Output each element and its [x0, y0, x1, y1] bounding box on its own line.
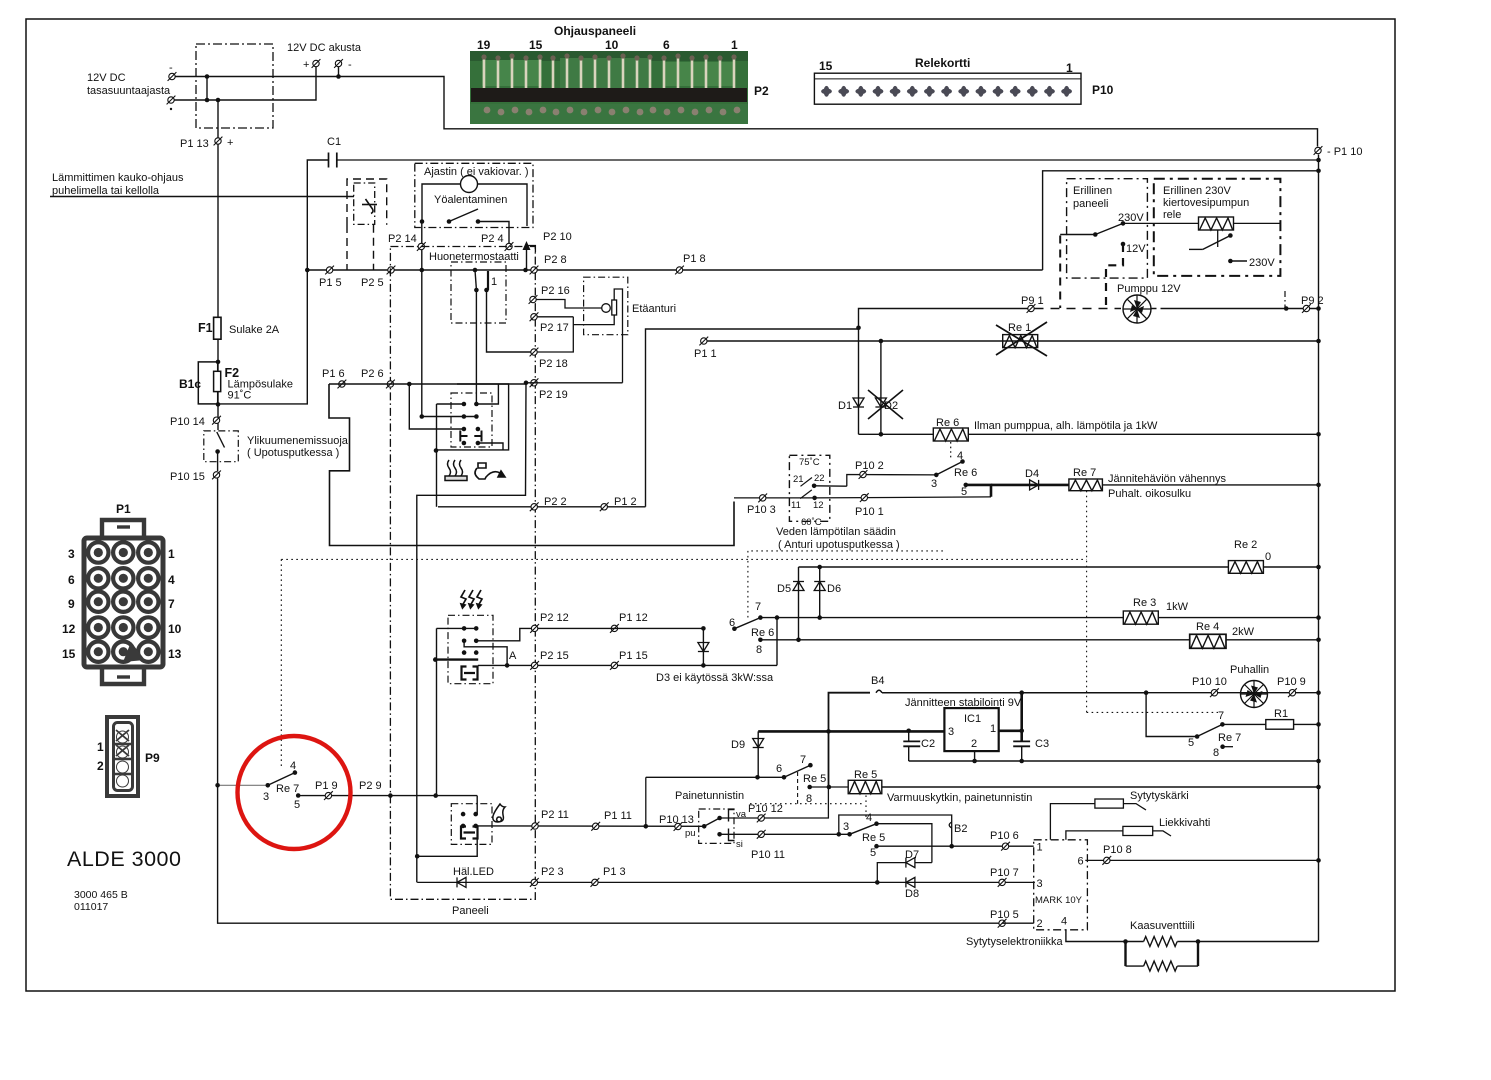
- Re 4 coil: [1190, 634, 1226, 648]
- svg-text:P2 6: P2 6: [361, 368, 384, 380]
- junction dot box top right: [1316, 169, 1321, 174]
- svg-text:C1: C1: [327, 136, 341, 148]
- junction dot C3 bottom: [1019, 759, 1024, 764]
- svg-text:tasasuuntaajasta: tasasuuntaajasta: [87, 85, 171, 97]
- P1 12 terminal: [610, 624, 619, 633]
- junction dot P1 1 right: [1316, 339, 1321, 344]
- upper enclosure box top: [1043, 171, 1319, 270]
- svg-text:P1 3: P1 3: [603, 866, 626, 878]
- svg-text:Yöalentaminen: Yöalentaminen: [434, 194, 507, 206]
- wire si row: [720, 833, 850, 835]
- svg-text:Re 7: Re 7: [1073, 467, 1096, 479]
- svg-text:2kW: 2kW: [1232, 626, 1255, 638]
- Re 7 coil: [1069, 479, 1103, 491]
- thick wire IC1 out: [999, 729, 1022, 732]
- svg-text:Re 5: Re 5: [803, 773, 826, 785]
- remote control outer dashed box: [347, 179, 387, 225]
- svg-text:12V DC akusta: 12V DC akusta: [287, 42, 362, 54]
- junction dot fan branch: [1144, 690, 1149, 695]
- P2 12 terminal: [530, 624, 539, 633]
- svg-text:D7: D7: [905, 849, 919, 861]
- svg-text:D4: D4: [1025, 468, 1039, 480]
- C3 capacitor: [1013, 741, 1030, 746]
- flame guard tick: [1153, 831, 1171, 836]
- P2 8 terminal: [530, 266, 539, 275]
- P2 15 terminal: [530, 661, 539, 670]
- junction dot D2 bottom: [879, 432, 884, 437]
- junction dot pin2: [972, 759, 977, 764]
- steam icon: [445, 460, 467, 481]
- svg-text:Re 3: Re 3: [1133, 597, 1156, 609]
- svg-text:Sytytyselektroniikka: Sytytyselektroniikka: [966, 936, 1063, 948]
- wire minus drop: [338, 67, 340, 77]
- svg-text:Erillinen 230V: Erillinen 230V: [1163, 185, 1232, 197]
- wire row3: [409, 384, 464, 429]
- P10 12 terminal: [757, 814, 766, 823]
- rele contact link: [1217, 230, 1219, 247]
- svg-text:R1: R1: [1274, 708, 1288, 720]
- svg-text:Huonetermostaatti: Huonetermostaatti: [429, 251, 519, 263]
- svg-text:7: 7: [800, 754, 806, 766]
- P2 10 arrow terminal: [523, 241, 536, 270]
- svg-text:MARK 10Y: MARK 10Y: [1035, 895, 1083, 906]
- svg-text:C2: C2: [921, 738, 935, 750]
- wire D7 left: [877, 863, 906, 883]
- junction dot B4 drop: [826, 729, 831, 734]
- svg-text:Sulake 2A: Sulake 2A: [229, 324, 280, 336]
- wire P2 19: [526, 382, 623, 384]
- P1 13 terminal: [214, 137, 223, 146]
- wire P10 1 row: [815, 497, 991, 498]
- svg-text:P1 2: P1 2: [614, 496, 637, 508]
- wire P2 17: [538, 316, 574, 318]
- va bracket: [729, 810, 735, 822]
- sensor bar bottom leg: [573, 315, 614, 325]
- svg-text:Re 5: Re 5: [854, 769, 877, 781]
- svg-text:Re 6: Re 6: [751, 627, 774, 639]
- rectifier terminal lower: [167, 96, 176, 105]
- junction dot D9 bottom: [755, 775, 760, 780]
- LED diode: [457, 877, 466, 887]
- P10 2 terminal: [859, 470, 868, 479]
- junction dot left main: [215, 783, 220, 788]
- sensor circle: [602, 304, 611, 313]
- svg-text:Veden lämpötilan säädin: Veden lämpötilan säädin: [776, 526, 896, 538]
- spark electrode wire: [1050, 804, 1095, 840]
- svg-text:P2 17: P2 17: [540, 322, 569, 334]
- wire PCB to P1 10: [470, 129, 1318, 147]
- wire P2 14 leg lower: [421, 270, 423, 417]
- dotted link Re6: [950, 442, 952, 459]
- svg-text:011017: 011017: [74, 901, 108, 913]
- Re 6 selector switch: [729, 601, 774, 656]
- junction dot D7: [875, 880, 880, 885]
- wire contact bottom: [478, 443, 503, 450]
- Re 1 coil crossed: [996, 322, 1047, 356]
- sensor hook to P2 19: [614, 289, 622, 383]
- svg-text:3000 465 B: 3000 465 B: [74, 889, 128, 901]
- D2 diode crossed: [868, 390, 903, 419]
- svg-text:Kaasuventtiili: Kaasuventtiili: [1130, 920, 1195, 932]
- svg-text:P2 10: P2 10: [543, 231, 572, 243]
- lower contact: [800, 490, 817, 500]
- junction dot bypass: [775, 615, 780, 620]
- junction dot C1 right: [1316, 158, 1321, 163]
- junction dot IC1 out: [1019, 729, 1024, 734]
- pressure sensor dash-dot box: [699, 809, 734, 843]
- P1 15 terminal: [610, 661, 619, 670]
- svg-text:Re 6: Re 6: [936, 417, 959, 429]
- water thermostat dash-dot box: [789, 455, 829, 521]
- svg-text:1: 1: [1066, 61, 1073, 75]
- svg-text:7: 7: [168, 597, 175, 611]
- panel dashed drop 12V: [1106, 244, 1123, 308]
- D5 diode: [793, 582, 804, 591]
- D3 diode: [698, 643, 709, 652]
- svg-text:D1: D1: [838, 400, 852, 412]
- cup icon: [475, 463, 505, 479]
- junction dot Re6 right: [1316, 432, 1321, 437]
- svg-text:Pumppu 12V: Pumppu 12V: [1117, 283, 1181, 295]
- Re 5 contact switch: [843, 812, 885, 859]
- svg-text:P2 4: P2 4: [481, 233, 504, 245]
- remote switch cross: [362, 199, 377, 214]
- svg-text:Liekkivahti: Liekkivahti: [1159, 817, 1210, 829]
- wire Re5 switch row: [646, 776, 784, 778]
- junction dot D6 top: [817, 565, 822, 570]
- wire P1 11 riser: [645, 777, 647, 826]
- P10 10 terminal: [1210, 688, 1219, 697]
- D9 branch: [757, 731, 759, 777]
- B4 curl: [876, 690, 882, 693]
- svg-text:P2 11: P2 11: [541, 809, 569, 821]
- flame block dots: [461, 812, 466, 817]
- dotted linkage Re5 row: [750, 803, 862, 805]
- wire P2 11 long: [476, 825, 705, 827]
- battery dash-dot box: [196, 44, 273, 128]
- Re 7 output switch: [1188, 710, 1241, 759]
- svg-text:D6: D6: [827, 583, 841, 595]
- svg-text:B1c: B1c: [179, 377, 201, 391]
- svg-text:ALDE 3000: ALDE 3000: [67, 847, 181, 871]
- P9 connector drawing: [107, 717, 138, 796]
- svg-text:12V: 12V: [1126, 243, 1146, 255]
- svg-text:( Upotusputkessa ): ( Upotusputkessa ): [247, 447, 339, 459]
- wire D3 bypass: [776, 618, 778, 666]
- svg-text:+: +: [303, 59, 309, 71]
- B4 wire: [829, 693, 871, 787]
- P1 9 terminal: [324, 791, 333, 800]
- svg-text:P10 3: P10 3: [747, 504, 776, 516]
- thermostat leg right: [487, 290, 535, 352]
- lower block row2 link: [464, 641, 507, 666]
- junction dot B4 C3: [1019, 690, 1024, 695]
- wire Re7 to right: [1102, 484, 1318, 486]
- svg-text:P1 8: P1 8: [683, 253, 706, 265]
- junction dot main right P9: [1316, 306, 1321, 311]
- remote dashed drop left: [346, 225, 348, 270]
- wire to P10 14: [217, 392, 219, 430]
- junction dot F2 top: [216, 360, 221, 365]
- svg-text:5: 5: [1188, 737, 1194, 749]
- lower block row2 dots: [462, 639, 467, 644]
- heat element strokes icon: [461, 590, 482, 608]
- svg-text:P1 11: P1 11: [604, 810, 632, 822]
- junction dot 1kW right: [1316, 615, 1321, 620]
- wire P2 9 row: [302, 795, 478, 797]
- svg-text:P1 5: P1 5: [319, 277, 342, 289]
- svg-text:10: 10: [168, 622, 182, 636]
- P2 4 terminal: [505, 242, 514, 251]
- Etaanturi box: [584, 277, 628, 335]
- svg-text:3: 3: [843, 821, 849, 833]
- main left wire down: [218, 479, 1002, 924]
- D8 diode: [906, 877, 915, 887]
- lower heater dash-dot box: [448, 615, 493, 683]
- C2 legs: [908, 731, 910, 761]
- svg-text:15: 15: [62, 647, 76, 661]
- dotted linkage top: [281, 558, 1086, 560]
- flame block H contact: [461, 827, 478, 839]
- svg-text:8: 8: [756, 644, 762, 656]
- P10 8 terminal: [1102, 856, 1111, 865]
- Re 5 upper switch: [776, 754, 826, 805]
- P10 1 terminal: [860, 493, 869, 502]
- svg-text:-: -: [169, 62, 173, 74]
- wire D3 column: [702, 628, 704, 665]
- svg-text:D5: D5: [777, 583, 791, 595]
- svg-text:Re 6: Re 6: [954, 467, 977, 479]
- P2 5 terminal: [387, 266, 396, 275]
- svg-text:B2: B2: [954, 823, 967, 835]
- svg-text:P9: P9: [145, 751, 160, 765]
- lower block row1 dots: [462, 626, 467, 631]
- dashed linkage Re5 switch: [797, 772, 799, 804]
- svg-text:P2 2: P2 2: [544, 496, 567, 508]
- svg-text:P2: P2: [754, 84, 769, 98]
- svg-text:Puhalt. oikosulku: Puhalt. oikosulku: [1108, 488, 1191, 500]
- flame guard wire: [1066, 831, 1123, 840]
- ground rail: [909, 760, 1319, 762]
- D7 diode: [906, 858, 915, 868]
- flame sensor block dash-dot box: [451, 804, 492, 845]
- Re 5 coil: [848, 780, 882, 793]
- P10 3 terminal: [758, 494, 767, 503]
- svg-text:11: 11: [791, 500, 801, 511]
- wire P2 15 long: [478, 664, 777, 666]
- lower H contact: [462, 667, 478, 680]
- svg-text:19: 19: [477, 38, 491, 52]
- wire Re 2 row: [799, 566, 1319, 568]
- svg-text:9: 9: [68, 597, 75, 611]
- svg-text:P9 2: P9 2: [1301, 295, 1324, 307]
- svg-text:P10 14: P10 14: [170, 416, 205, 428]
- P9 2 dash-dot mark: [1284, 291, 1286, 308]
- wire P1 1 long: [707, 340, 1319, 342]
- junction dot P2 14 leg: [420, 268, 425, 273]
- svg-text:Re 7: Re 7: [1218, 732, 1241, 744]
- akusta plus terminal: [312, 59, 321, 68]
- B1c bypass box: [198, 362, 217, 404]
- svg-text:5: 5: [961, 486, 967, 498]
- svg-text:Painetunnistin: Painetunnistin: [675, 790, 744, 802]
- svg-text:P10 9: P10 9: [1277, 676, 1306, 688]
- svg-text:P10 8: P10 8: [1103, 844, 1132, 856]
- svg-text:+: +: [227, 137, 233, 149]
- svg-text:21: 21: [793, 474, 804, 485]
- wire 5 contact B2 row: [877, 845, 1034, 847]
- P2 2 terminal: [530, 502, 539, 511]
- P1 5 terminal: [325, 266, 334, 275]
- svg-text:12: 12: [62, 622, 76, 636]
- svg-text:1kW: 1kW: [1166, 601, 1189, 613]
- svg-text:7: 7: [1218, 710, 1224, 722]
- svg-text:P10 7: P10 7: [990, 867, 1019, 879]
- D9 diode: [753, 739, 764, 748]
- wire into flame block: [476, 796, 478, 815]
- wire 4 contact to D7: [877, 824, 932, 863]
- svg-text:Ohjauspaneeli: Ohjauspaneeli: [554, 24, 636, 38]
- wire P2 16 to sensor: [537, 300, 602, 309]
- relay U contact left: [460, 427, 467, 446]
- relay U contact right: [474, 427, 481, 446]
- fan motor: [1241, 681, 1268, 708]
- wire Re 6 row: [859, 433, 1319, 435]
- junction dot D2 top: [879, 339, 884, 344]
- svg-text:1: 1: [990, 723, 996, 735]
- svg-text:Re 2: Re 2: [1234, 539, 1257, 551]
- dotted linkage Re5 coil: [865, 795, 867, 817]
- svg-text:Lämmittimen kauko-ohjaus: Lämmittimen kauko-ohjaus: [52, 172, 184, 184]
- D1 diode: [853, 398, 864, 407]
- Re 6 power switch: [931, 450, 977, 498]
- svg-text:15: 15: [819, 59, 833, 73]
- wire lower supply: [174, 67, 316, 100]
- svg-text:Re 1: Re 1: [1008, 322, 1031, 334]
- svg-text:5: 5: [294, 799, 300, 811]
- relay contact dots row2: [462, 414, 467, 419]
- svg-text:4: 4: [168, 573, 175, 587]
- svg-text:5: 5: [870, 847, 876, 859]
- si bracket: [729, 829, 735, 841]
- svg-text:6: 6: [776, 763, 782, 775]
- svg-text:P10 12: P10 12: [748, 803, 783, 815]
- P10 15 terminal: [212, 471, 221, 480]
- junction dot si loop: [837, 832, 842, 837]
- wire to P1 13: [217, 100, 219, 318]
- heater block left drop: [436, 404, 438, 507]
- wire P9 riser: [859, 309, 1032, 330]
- svg-text:C3: C3: [1035, 738, 1049, 750]
- Re 3 coil: [1123, 611, 1158, 624]
- dotted water thermostat box: [748, 551, 946, 618]
- svg-text:P1 6: P1 6: [322, 368, 345, 380]
- wire row1 left: [437, 403, 464, 405]
- P1 11 terminal: [591, 822, 600, 831]
- rele contact: [1189, 233, 1233, 249]
- timer switch: [420, 209, 509, 243]
- P10 9 terminal: [1288, 688, 1297, 697]
- wire battery internal vertical: [206, 77, 208, 101]
- Paneeli dash-dot border: [390, 247, 535, 900]
- red circle highlight: [238, 736, 351, 849]
- timer inner box: [422, 184, 461, 222]
- wire fan row: [1146, 692, 1318, 694]
- svg-text:F1: F1: [198, 321, 213, 335]
- wire row1 right riser: [476, 384, 498, 404]
- svg-text:-: -: [348, 59, 352, 71]
- P2 14 terminal: [417, 242, 426, 251]
- svg-text:P10 5: P10 5: [990, 909, 1019, 921]
- P2 16 terminal: [529, 295, 538, 304]
- svg-text:6: 6: [1078, 856, 1084, 868]
- lower block row1 wire: [437, 627, 477, 629]
- pump dashed wire left: [1035, 308, 1122, 310]
- P1 2 terminal: [600, 502, 609, 511]
- wire P1 6 P2 6: [329, 383, 526, 385]
- wire 22 jog: [814, 485, 847, 487]
- svg-text:P1 15: P1 15: [619, 650, 648, 662]
- gas valve network: [1123, 937, 1200, 972]
- junction dot D3 top: [701, 626, 706, 631]
- svg-text:P10: P10: [1092, 83, 1114, 97]
- remote control inner dash-dot box: [354, 183, 375, 224]
- si contact: [717, 832, 722, 837]
- dotted linkage right: [1086, 491, 1088, 713]
- pressure switch: [702, 816, 722, 829]
- svg-text:Häl.LED: Häl.LED: [453, 866, 494, 878]
- junction dot D3 bottom: [701, 663, 706, 668]
- flame icon: [493, 804, 505, 822]
- wire overheat to P10 15: [217, 452, 219, 472]
- svg-text:pu: pu: [685, 828, 696, 839]
- Re 2 coil: [1228, 561, 1263, 574]
- Erillinen paneeli dash-dot box: [1067, 179, 1148, 278]
- P10 13 terminal: [674, 822, 683, 831]
- wire B4 right: [882, 692, 1146, 694]
- svg-text:P2 14: P2 14: [388, 233, 417, 245]
- wire 2kW row: [760, 639, 1318, 641]
- svg-text:B4: B4: [871, 675, 884, 687]
- svg-text:P2 16: P2 16: [541, 285, 570, 297]
- svg-text:Paneeli: Paneeli: [452, 905, 489, 917]
- junction dot P2 10 leg: [523, 268, 528, 273]
- wire R1 row: [1222, 723, 1318, 725]
- svg-text:P1: P1: [116, 502, 131, 516]
- svg-text:P2 12: P2 12: [540, 612, 569, 624]
- flame block bottom link: [417, 839, 477, 857]
- wire va row: [720, 787, 829, 818]
- wire P10 5 to MARK: [1002, 922, 1034, 924]
- P10 11 terminal: [757, 830, 766, 839]
- svg-text:si: si: [736, 839, 743, 850]
- MARK 10Y dash-dot box: [1034, 840, 1088, 930]
- wire remote control: [50, 196, 354, 198]
- junction dot fan right: [1316, 690, 1321, 695]
- thick vertical C3 B4: [1020, 693, 1023, 741]
- svg-text:Re 4: Re 4: [1196, 621, 1219, 633]
- panel switch: [1060, 223, 1123, 236]
- lower block row3 dots: [462, 650, 467, 655]
- rectifier terminal upper: [168, 72, 177, 81]
- wire D7 right stub: [915, 862, 932, 864]
- heater relay block outer box: [436, 384, 509, 450]
- svg-text:6: 6: [68, 573, 75, 587]
- wire timer left leg: [421, 222, 423, 271]
- junction dot P10 8 right: [1316, 858, 1321, 863]
- svg-text:P2 19: P2 19: [539, 389, 568, 401]
- P9 1 terminal: [1027, 304, 1036, 313]
